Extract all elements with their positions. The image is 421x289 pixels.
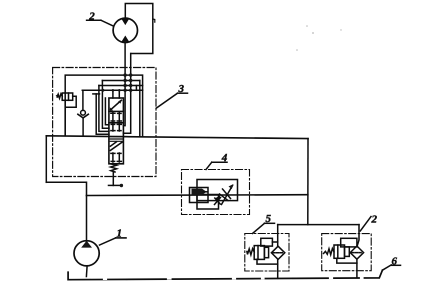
filter 2 diamond bbox=[350, 246, 363, 259]
wire right link R2-R3 bbox=[135, 86, 137, 91]
motor M2 circle bbox=[113, 18, 137, 42]
wire rung R3 bbox=[82, 89, 142, 91]
throttle cross strokes bbox=[220, 189, 231, 201]
valve section divider 2 bbox=[109, 122, 124, 124]
manifold left edge bbox=[45, 136, 47, 183]
filter 5 diamond bbox=[271, 246, 284, 259]
wire left L3 bbox=[102, 81, 109, 129]
label 2 leader bbox=[101, 20, 113, 26]
filter 5 outlet wire bbox=[277, 259, 279, 278]
label 6 underline bbox=[391, 264, 401, 266]
valve cover plate box bbox=[65, 75, 142, 136]
wire right drop R1 bbox=[139, 81, 141, 137]
check valve wire up bbox=[82, 90, 84, 110]
filter 5 valve small rect bbox=[264, 247, 268, 257]
svg-text:2: 2 bbox=[371, 214, 378, 226]
motor M2 top triangle bbox=[121, 19, 129, 25]
loop tick mark bbox=[153, 19, 155, 22]
wire valve top port b bbox=[118, 90, 120, 98]
filter 2 diamond dashes bbox=[351, 252, 362, 254]
wire left L1 bbox=[96, 94, 109, 134]
valve drain wire bbox=[112, 172, 114, 185]
filter 2 spring bbox=[324, 249, 334, 255]
manifold outline top bbox=[46, 136, 308, 139]
filter 2 valve body bbox=[334, 245, 345, 258]
throttle rect B bbox=[190, 188, 209, 203]
filter 2 bottom link bbox=[337, 258, 357, 263]
tank line bbox=[68, 270, 382, 280]
filter 2 bypass rect A bbox=[341, 238, 357, 247]
throttle rect A bbox=[197, 180, 238, 201]
valve drain bar bbox=[109, 184, 121, 186]
filter 5 bypass rect A bbox=[261, 238, 273, 246]
valve S2 arrows bbox=[111, 113, 115, 122]
manifold right edge bbox=[307, 139, 309, 225]
wire left L2 bbox=[99, 86, 109, 132]
valve section divider 1 bbox=[109, 110, 124, 112]
throttle check arrow bbox=[192, 189, 207, 195]
pump outlet wire bbox=[85, 266, 88, 277]
throttle small x arrow bbox=[215, 197, 221, 205]
filter 2 outlet wire bbox=[356, 259, 358, 277]
valve block 3 boundary (dash-dot) bbox=[53, 68, 156, 177]
pump P1 triangle bbox=[81, 241, 92, 248]
wire motor top loop bbox=[125, 4, 153, 54]
label 6 leader bbox=[382, 265, 391, 270]
valve S6 arrows bbox=[111, 153, 115, 162]
throttle unit 4 boundary (dash-dot) bbox=[182, 170, 250, 215]
wire left L4 bbox=[105, 98, 109, 125]
main pressure line bbox=[87, 194, 308, 197]
wire rung R1 bbox=[102, 80, 139, 82]
filter 5 diamond dashes bbox=[273, 252, 284, 254]
label 5 leader bbox=[253, 223, 265, 233]
check valve seat bbox=[78, 114, 88, 118]
filter unit 5 boundary (dash-dot) bbox=[245, 234, 289, 272]
label 1 leader bbox=[100, 238, 116, 245]
throttle rect C bbox=[197, 195, 219, 210]
wire motor line B bbox=[124, 54, 131, 134]
label 4 underline bbox=[212, 161, 227, 163]
filter 2 feed wire bbox=[357, 225, 359, 246]
wire to pump bbox=[86, 196, 88, 242]
filter unit 2 boundary (dash-dot) bbox=[322, 234, 372, 271]
label 5 underline bbox=[265, 222, 275, 224]
wire R4 bar bbox=[93, 93, 100, 95]
tank line scan gaps bbox=[104, 278, 363, 279]
filter 5 spring bbox=[247, 249, 254, 255]
label 4 leader bbox=[206, 162, 212, 169]
valve S5 diagonals bbox=[110, 142, 122, 151]
valve S1 diagonal arrow bbox=[111, 100, 122, 110]
filter 5 feed wire bbox=[277, 225, 279, 247]
motor M2 bottom triangle bbox=[121, 36, 129, 42]
main valve body bbox=[109, 98, 124, 164]
valve bottom spring bbox=[110, 164, 116, 172]
label 1 underline bbox=[116, 237, 126, 239]
wire valve top port a bbox=[112, 90, 114, 98]
valve S3 arrows bbox=[111, 124, 115, 131]
filter feed tee line bbox=[278, 224, 359, 226]
relief valve body bbox=[62, 93, 72, 100]
filter 5 bypass link bbox=[272, 241, 277, 243]
wire motor line A bbox=[124, 43, 126, 126]
throttle main arrow bbox=[222, 186, 233, 205]
junction dots bbox=[101, 73, 132, 92]
filter 5 bottom link bbox=[257, 259, 278, 264]
label 2b leader bbox=[360, 217, 371, 232]
check valve circle bbox=[81, 110, 86, 115]
label 3 underline bbox=[178, 92, 188, 94]
filter 2 valve small rect bbox=[345, 247, 350, 257]
pump P1 circle bbox=[74, 241, 99, 266]
valve S4 bars bbox=[110, 137, 122, 142]
relief valve pilot loop bbox=[66, 96, 77, 107]
manifold bottom-left step bbox=[46, 182, 86, 195]
relief valve stem bbox=[64, 100, 66, 136]
filter 5 valve body bbox=[254, 246, 264, 260]
label 2 underline bbox=[87, 19, 101, 21]
relief valve spring bbox=[57, 94, 62, 98]
relief valve divider bbox=[68, 93, 70, 100]
valve drain dot bbox=[120, 184, 123, 187]
wire rung R2 bbox=[99, 85, 143, 87]
label 3 leader bbox=[156, 93, 177, 108]
check valve wire down bbox=[82, 118, 84, 136]
